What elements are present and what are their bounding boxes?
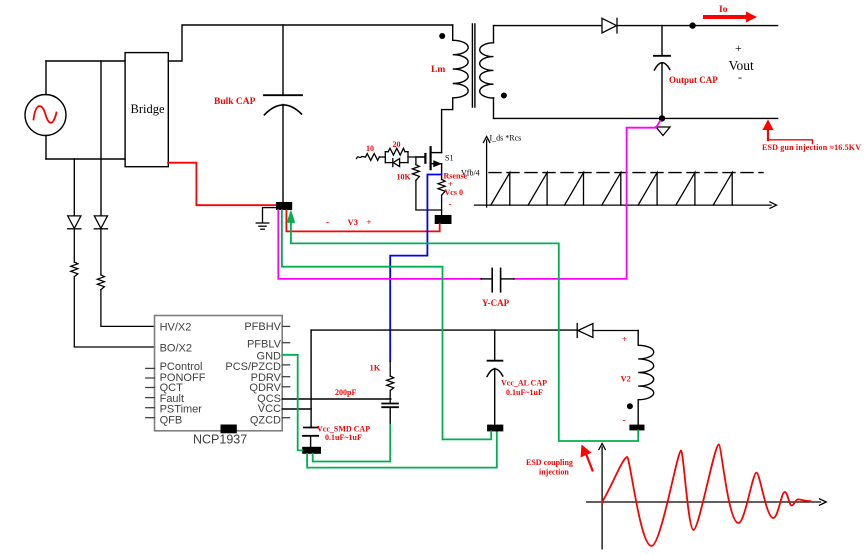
diode D4 Vcc aux [577, 324, 638, 338]
V2 phase dot [627, 403, 633, 409]
svg-text:BO/X2: BO/X2 [160, 343, 192, 355]
svg-text:20: 20 [393, 140, 401, 149]
resistor Rsense [438, 179, 445, 215]
svg-text:Bulk CAP: Bulk CAP [214, 97, 256, 107]
capacitor Vcc_AL [487, 330, 503, 425]
gate network resistor 20 (top branch) [385, 148, 408, 162]
aux winding V2 [638, 331, 654, 425]
gate network diode (bottom branch) [385, 157, 425, 167]
resistor R-BO [71, 262, 155, 347]
ringing waveform trace [602, 444, 810, 546]
svg-text:1K: 1K [370, 363, 381, 373]
svg-text:V2: V2 [621, 374, 631, 384]
svg-text:Vcs 0: Vcs 0 [445, 188, 463, 197]
SMD pad Vcc_AL [487, 425, 503, 432]
pin stubs left [146, 368, 155, 417]
bulk capacitor [264, 25, 302, 202]
svg-text:NCP1937: NCP1937 [193, 433, 247, 447]
svg-text:Bridge: Bridge [131, 102, 165, 116]
svg-text:V3: V3 [348, 217, 358, 227]
down arrow at output return node [656, 127, 670, 136]
secondary phase dot [501, 93, 507, 99]
primary phase dot [439, 33, 445, 39]
svg-text:QFB: QFB [160, 414, 183, 426]
Io arrow [705, 15, 747, 19]
svg-text:I_ds *Rcs: I_ds *Rcs [490, 134, 522, 143]
wire bridge return (red) [168, 163, 276, 206]
svg-text:-: - [449, 199, 452, 209]
capacitor Vcc_SMD [303, 428, 318, 447]
diode D1 (to BO/X2) [68, 216, 81, 262]
wire AC bottom [46, 158, 125, 160]
svg-text:+: + [367, 217, 372, 227]
svg-text:Output CAP: Output CAP [669, 75, 718, 85]
wire green GND to pad [282, 355, 302, 451]
svg-text:Lm: Lm [431, 65, 445, 75]
AC sine symbol [34, 106, 57, 123]
node output dot [689, 22, 695, 28]
ESD gun injection arrow [763, 121, 812, 144]
svg-text:+: + [735, 41, 742, 55]
sawtooth teeth [491, 173, 732, 206]
svg-text:Vfb/4: Vfb/4 [461, 169, 480, 178]
output capacitor [654, 26, 670, 119]
ringing waveform axes [587, 444, 827, 549]
sawtooth waveform axes [475, 137, 777, 209]
ground symbol [256, 208, 276, 230]
dashed level line [489, 172, 763, 174]
SMD pad bulk ground [276, 202, 292, 210]
svg-text:QZCD: QZCD [250, 414, 281, 426]
wire magenta Y-cap net [278, 121, 660, 279]
svg-text:0.1uF~1uF: 0.1uF~1uF [325, 433, 362, 442]
svg-text:ESD gun injection ≈16.5KV: ESD gun injection ≈16.5KV [762, 143, 861, 152]
transformer core [472, 24, 475, 107]
wire output top rail [617, 25, 778, 27]
svg-text:10: 10 [366, 144, 374, 153]
resistor 10K [412, 157, 441, 210]
svg-text:0.1uF~1uF: 0.1uF~1uF [506, 388, 543, 397]
svg-text:-: - [326, 217, 329, 227]
wire green 200pF return [313, 425, 391, 462]
node output return dot [659, 115, 665, 121]
transformer secondary [480, 26, 494, 119]
wire AC left vertical [45, 61, 47, 159]
wire secondary top to output diode [494, 25, 603, 27]
MOSFET S1 [416, 147, 442, 179]
wire blue QCS sense [390, 175, 441, 362]
svg-text:Vcc_AL CAP: Vcc_AL CAP [501, 379, 547, 388]
SMD pad NCP [221, 425, 237, 434]
Y-CAP [481, 268, 514, 291]
pin labels left [160, 322, 206, 427]
wire neutral tap vertical to BO diode [73, 159, 75, 216]
bridge rectifier box [125, 53, 168, 167]
svg-text:+: + [622, 334, 627, 344]
resistor 1K [387, 361, 394, 404]
NCP1937 controller U1 [155, 316, 283, 431]
AC source V1 [25, 95, 66, 136]
svg-text:10K: 10K [397, 173, 412, 182]
wire green Vcc_AL return [307, 432, 497, 468]
wire output bottom rail [494, 117, 778, 119]
resistor R-HV [97, 275, 154, 327]
svg-text:injection: injection [539, 468, 569, 477]
ESD coupling arrow [587, 455, 593, 471]
svg-text:HV/X2: HV/X2 [160, 322, 192, 334]
SMD pad V2 [629, 425, 644, 431]
SMD pad source ground [435, 215, 452, 224]
svg-text:-: - [738, 70, 742, 84]
wire VCC vertical [310, 330, 312, 427]
green arrow into bulk pad [287, 210, 296, 223]
wire line tap vertical to HV diode [100, 61, 102, 216]
SMD pad Vcc_SMD [302, 447, 321, 454]
svg-text:200pF: 200pF [335, 388, 356, 397]
wire VCC top rail [311, 329, 577, 331]
svg-text:-: - [623, 415, 626, 425]
pin labels right [225, 321, 281, 426]
svg-text:Y-CAP: Y-CAP [482, 298, 510, 308]
diode D2 (to HV/X2) [94, 216, 107, 275]
svg-text:Io: Io [719, 5, 728, 15]
pin stubs right [282, 326, 289, 417]
output diode D3 [602, 18, 617, 33]
wire VCC pin [282, 408, 311, 410]
svg-text:ESD coupling: ESD coupling [526, 458, 573, 467]
capacitor 200pF [382, 404, 398, 425]
svg-text:PFBHV: PFBHV [244, 321, 281, 333]
transformer T1 primary Lm [442, 25, 469, 153]
wire AC top [46, 60, 125, 62]
svg-text:PFBLV: PFBLV [247, 338, 282, 350]
wire green bulk to V2 pad [291, 218, 638, 441]
svg-text:S1: S1 [445, 154, 453, 163]
wire V3 red rail [286, 210, 439, 231]
wire green bulk to Vcc_AL pad [282, 210, 491, 439]
wire QCS to 1K node [282, 398, 391, 400]
wire bridge output to top rail [168, 25, 452, 61]
gate resistor 10 [357, 154, 386, 161]
